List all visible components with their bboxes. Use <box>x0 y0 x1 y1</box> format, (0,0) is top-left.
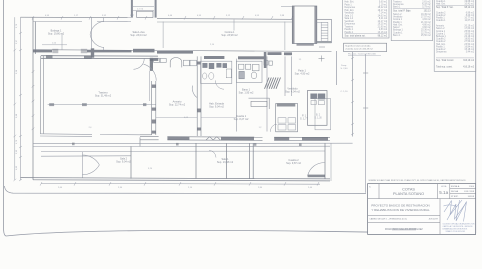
svg-text:B. 2: B. 2 <box>316 115 321 117</box>
kitchen cupboard row <box>154 58 197 65</box>
svg-text:21,90 m2: 21,90 m2 <box>378 26 388 28</box>
bottom band top wall lines <box>33 143 353 156</box>
exterior left wall tick marks <box>32 70 35 130</box>
frame left edge <box>4 0 6 236</box>
trastero left interior wall <box>41 56 44 134</box>
svg-text:Sup. 9,04 m2: Sup. 9,04 m2 <box>209 106 224 109</box>
svg-text:Pasillo 1: Pasillo 1 <box>345 29 354 31</box>
svg-text:Total sup. const.: Total sup. const. <box>436 65 453 68</box>
svg-text:Despensa: Despensa <box>436 52 447 54</box>
area table 3 (resumen superficies) <box>434 0 476 71</box>
svg-text:Vestibulo: Vestibulo <box>345 12 355 15</box>
svg-text:Cocina 1: Cocina 1 <box>393 19 403 21</box>
svg-text:3,44 m2: 3,44 m2 <box>466 52 475 54</box>
top dimension ticks and numbers <box>32 16 293 20</box>
fold mark vertical <box>365 54 367 193</box>
svg-text:Sup. total planta sot.: Sup. total planta sot. <box>345 35 366 38</box>
staircase <box>317 22 328 41</box>
top band bottom wall thin guide line <box>33 50 332 52</box>
fold mark crosses <box>363 73 368 108</box>
svg-text:JUN. 1998: JUN. 1998 <box>464 191 475 193</box>
frame bottom outer line <box>6 230 476 236</box>
architects college stamp (blue) <box>444 200 467 222</box>
svg-text:Sup. 13,08 m2: Sup. 13,08 m2 <box>217 161 234 164</box>
svg-text:Sup. 1,95 m2: Sup. 1,95 m2 <box>239 92 254 95</box>
svg-text:Hab. Ent.: Hab. Ent. <box>345 1 355 4</box>
svg-text:Sup. Total Constr.: Sup. Total Constr. <box>436 59 454 62</box>
svg-text:Cuadra 2: Cuadra 2 <box>436 14 446 17</box>
svg-text:Bano 1: Bano 1 <box>393 7 401 9</box>
double door between bodega and sala (cusp arcs) <box>90 18 104 51</box>
svg-text:Sup. 9,04 m2: Sup. 9,04 m2 <box>116 161 131 164</box>
outer left dimension line <box>14 17 16 180</box>
svg-text:Sup. 9,87 m2: Sup. 9,87 m2 <box>286 162 301 165</box>
stair-down hatch (dark diagonal strokes) <box>265 78 281 89</box>
vestibule walls <box>236 56 291 131</box>
top exterior wall inner line with door opening <box>33 21 292 24</box>
svg-text:Sup. 4,90 m2: Sup. 4,90 m2 <box>295 73 310 76</box>
svg-text:19,25 m2: 19,25 m2 <box>378 24 388 26</box>
svg-text:Cuadra 2: Cuadra 2 <box>436 11 446 14</box>
thick interior wall at entrance hall (hollow with blobs) <box>197 56 201 136</box>
svg-text:165/98: 165/98 <box>468 196 475 198</box>
svg-text:Nº EXP.: Nº EXP. <box>451 195 459 198</box>
pasillo room box with cubicles <box>276 104 298 132</box>
svg-text:Superficie total construida: Superficie total construida <box>345 45 371 48</box>
door arc + leaf bottom-right (cuadra 2) <box>308 163 325 176</box>
svg-text:Desp.: Desp. <box>341 65 347 67</box>
small room with fixtures (right of vestibule) <box>308 91 328 126</box>
svg-text:Cuadra 1: Cuadra 1 <box>436 0 446 3</box>
svg-text:ESCALA: ESCALA <box>451 185 460 188</box>
title block inner dividers <box>368 184 476 235</box>
middle band bottom thick wall (double line + dark segments) <box>140 137 330 141</box>
svg-text:Vestibulo: Vestibulo <box>393 16 403 19</box>
svg-text:19,17 m2: 19,17 m2 <box>378 10 388 12</box>
svg-text:Hab. Ent.: Hab. Ent. <box>393 24 403 27</box>
svg-text:CAMINO DE LA F. 1 - VENTA DE A: CAMINO DE LA F. 1 - VENTA DE A. (D.S.) <box>369 217 407 220</box>
double door arcs bottom-left (K shape) <box>82 152 99 178</box>
area table 2 (planta baja) <box>391 0 432 41</box>
top band partition lines <box>62 20 285 51</box>
small door arc in bottom band <box>209 151 216 158</box>
small arc at pasillo lower-left <box>270 124 277 132</box>
interior dimension marks <box>52 43 302 171</box>
svg-text:14,63 m2: 14,63 m2 <box>378 15 388 17</box>
left dimension line with ticks <box>19 17 22 181</box>
middle band bottom wall left light part <box>40 134 140 137</box>
svg-text:PLANTA SOTANO: PLANTA SOTANO <box>393 192 424 196</box>
door arc at entrance hall wall <box>192 86 197 98</box>
bathroom 1 box and fixtures <box>201 61 232 83</box>
faint dim lines armario / hab entrada <box>156 117 197 119</box>
svg-text:7,14 m2: 7,14 m2 <box>379 13 388 15</box>
svg-text:Cuadra 1: Cuadra 1 <box>436 19 446 22</box>
svg-text:22,78 m2: 22,78 m2 <box>421 32 431 34</box>
svg-text:Vestibulo: Vestibulo <box>345 20 355 23</box>
trastero interior dim line <box>48 103 156 105</box>
frame right edge <box>475 0 477 233</box>
title block architect name <box>392 228 416 230</box>
svg-text:2,19 m2: 2,19 m2 <box>379 4 388 6</box>
svg-text:8,21 m2: 8,21 m2 <box>379 18 388 20</box>
svg-text:5.1a: 5.1a <box>439 190 448 195</box>
svg-text:Armario: Armario <box>436 25 445 28</box>
svg-text:PROYECTO BASICO DE RESTAURACIO: PROYECTO BASICO DE RESTAURACION <box>371 203 429 207</box>
bottom band right edge line <box>330 143 332 181</box>
bodega-sala partition wall <box>91 18 93 49</box>
note box below table 1 <box>344 43 387 55</box>
svg-text:Despensa: Despensa <box>345 7 356 9</box>
top band bottom wall (dark segments with openings) <box>33 41 332 68</box>
svg-text:Sup. 4,04 m2: Sup. 4,04 m2 <box>285 91 300 94</box>
plan top dimension line <box>21 17 332 19</box>
svg-text:1 2 3 4: 1 2 3 4 <box>137 9 144 11</box>
tiny numbers under bottom dim line <box>58 187 313 189</box>
svg-text:14,17 m2: 14,17 m2 <box>378 21 388 23</box>
svg-text:25,50 m2: 25,50 m2 <box>421 35 431 37</box>
svg-text:Cuadra 2: Cuadra 2 <box>436 38 446 41</box>
svg-text:Trastero: Trastero <box>345 25 354 28</box>
frame bottom inner line <box>5 186 367 194</box>
kitchen niche arch <box>170 58 182 68</box>
plan exterior left wall <box>33 17 35 180</box>
tick rects on bottom band top wall <box>72 143 302 146</box>
svg-text:Sup. 8,27 m2: Sup. 8,27 m2 <box>234 118 249 121</box>
svg-text:Sup. Total P. Sot.: Sup. Total P. Sot. <box>436 6 454 9</box>
svg-text:10,41 m2: 10,41 m2 <box>464 3 474 5</box>
bottom band interior walls <box>131 143 325 179</box>
svg-text:98,12 m2: 98,12 m2 <box>464 7 474 9</box>
right side dimension ticks <box>351 57 354 135</box>
svg-text:Sala 1-2: Sala 1-2 <box>345 15 354 17</box>
svg-text:416,19 m2: 416,19 m2 <box>463 66 475 68</box>
svg-text:Y REHABILITACION DE VIVIENDA R: Y REHABILITACION DE VIVIENDA RURAL <box>371 208 430 212</box>
casement window zigzag in middle wall <box>206 137 220 140</box>
svg-text:Bano 1: Bano 1 <box>393 35 401 37</box>
svg-text:5,79 m2: 5,79 m2 <box>422 7 431 9</box>
svg-text:4,84 m2: 4,84 m2 <box>422 19 431 21</box>
svg-text:Patio 1: Patio 1 <box>345 3 353 6</box>
svg-text:Sup. total P. Baja: Sup. total P. Baja <box>393 10 411 13</box>
svg-text:Sup. 31,48 m2: Sup. 31,48 m2 <box>95 95 112 98</box>
svg-text:SOBRE SOLAR PLAN RUSTICO EL PL: SOBRE SOLAR PLAN RUSTICO EL PLANO Nº7, E… <box>369 179 467 182</box>
kitchen fireplace dark corner <box>150 58 153 71</box>
svg-text:S. 2,40: S. 2,40 <box>341 68 349 70</box>
svg-text:Cuadra 1: Cuadra 1 <box>393 31 403 34</box>
svg-text:C. 1,10: C. 1,10 <box>340 91 348 93</box>
svg-text:Sup. 22,74 m2: Sup. 22,74 m2 <box>169 104 186 107</box>
patio block (upper right of plan) <box>292 6 317 44</box>
plan bottom exterior wall <box>21 178 331 181</box>
svg-text:COTAS: COTAS <box>402 187 415 191</box>
svg-text:Despensa: Despensa <box>345 24 356 26</box>
right wing exterior walls <box>332 19 353 136</box>
svg-text:Hab. Ent.: Hab. Ent. <box>436 2 446 5</box>
svg-text:VISADO 22.06.98 N.165: VISADO 22.06.98 N.165 <box>446 230 466 233</box>
large door arc into trastero <box>144 64 157 81</box>
bathroom 2 box and fixtures <box>236 61 262 82</box>
svg-text:98,12 m2: 98,12 m2 <box>378 36 388 38</box>
short wall lines above trastero arc <box>149 71 151 101</box>
svg-text:S. 1,30: S. 1,30 <box>314 118 322 120</box>
svg-text:Sup. 23,98 m2: Sup. 23,98 m2 <box>221 34 238 37</box>
title block outer box <box>368 184 476 235</box>
cross dim ticks near stair bottom <box>319 47 326 62</box>
svg-text:HOJA: HOJA <box>441 185 447 188</box>
door arc below bathroom 1 <box>215 80 224 89</box>
svg-text:1/100: 1/100 <box>469 186 475 188</box>
svg-text:Cuadra 2: Cuadra 2 <box>436 48 446 51</box>
svg-text:2,83 m2: 2,83 m2 <box>379 29 388 31</box>
L wall left of pasillo <box>249 98 270 109</box>
svg-text:Sup. 23,04 m2: Sup. 23,04 m2 <box>130 34 147 37</box>
bottom dimension line <box>41 182 320 185</box>
small fixtures SE corner of cocina <box>264 61 272 66</box>
svg-text:18,22 m2: 18,22 m2 <box>378 7 388 9</box>
svg-text:Sala 1-2: Sala 1-2 <box>345 18 354 20</box>
svg-text:FRANCISCO GALLIFA RODRIGUEZ: FRANCISCO GALLIFA RODRIGUEZ <box>385 228 423 231</box>
overlapping shower room box <box>315 99 331 130</box>
interior dim line trastero <box>42 44 67 46</box>
small door arcs left of kitchen <box>134 58 145 69</box>
stamp text lines (blue) <box>443 222 476 233</box>
thick interior wall left-middle (hollow with blobs) <box>140 81 156 146</box>
svg-text:Hab. Ent.: Hab. Ent. <box>345 9 355 12</box>
svg-text:Trastero: Trastero <box>393 0 402 3</box>
svg-text:316,19 m2: 316,19 m2 <box>463 60 475 62</box>
svg-text:S. 1,77: S. 1,77 <box>300 118 309 121</box>
area table 1 (superficies utiles planta sotano) <box>343 0 389 38</box>
svg-text:FECHA: FECHA <box>451 190 459 193</box>
svg-text:JUN 22/97: JUN 22/97 <box>429 218 439 220</box>
svg-text:11,67 m2: 11,67 m2 <box>465 20 475 22</box>
chimney detail above top wall <box>131 0 157 18</box>
svg-text:vivienda rural s/n 416,19 m2: vivienda rural s/n 416,19 m2 <box>345 48 373 51</box>
svg-text:102,13: 102,13 <box>424 11 432 13</box>
svg-text:5,60 m2: 5,60 m2 <box>379 2 388 4</box>
svg-text:Hab. Ent.: Hab. Ent. <box>436 43 446 46</box>
svg-text:Cuadra 2: Cuadra 2 <box>436 40 446 43</box>
trastero top wall (double line with tick rects) <box>41 56 158 59</box>
